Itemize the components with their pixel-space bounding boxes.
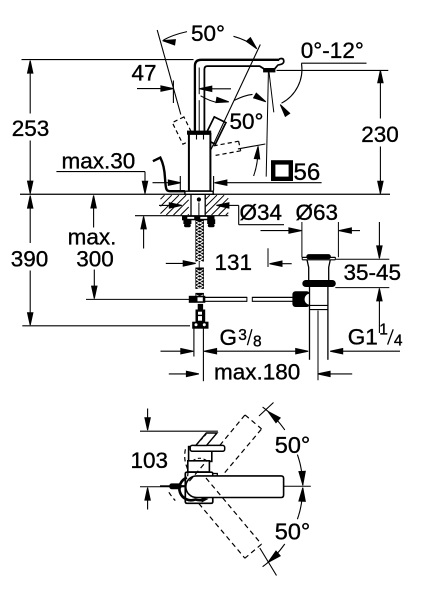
pop-up rod xyxy=(205,297,293,302)
dim 103 top xyxy=(145,409,150,431)
tv arc upper arrow top xyxy=(268,411,280,422)
handle lever dashed xyxy=(172,117,194,144)
label G1-1/4 xyxy=(348,321,403,349)
svg-text:4: 4 xyxy=(394,333,403,350)
tv paddle bar xyxy=(190,445,225,451)
spout tip xyxy=(275,59,284,69)
tv dashed curve left lower xyxy=(169,492,175,500)
deck hatching xyxy=(161,195,229,215)
label 50deg top xyxy=(191,21,225,46)
tv dashed spout upper xyxy=(189,415,261,481)
label max.30 xyxy=(62,149,136,174)
tv centerline left xyxy=(140,486,174,488)
supply pipe left xyxy=(193,328,195,356)
extension line spout top level xyxy=(22,59,194,61)
tv arc lower arrow bottom xyxy=(268,551,280,562)
dim 390 arrow up xyxy=(28,196,33,209)
tv swoosh xyxy=(179,478,207,502)
pull rod hook xyxy=(153,158,185,192)
mounting plate xyxy=(183,216,215,220)
drain cap xyxy=(302,255,335,260)
tv arc lower arrow top xyxy=(299,488,305,502)
dim 131 right xyxy=(270,261,292,266)
supply pipe right xyxy=(202,328,204,381)
label 50deg tv bottom xyxy=(275,518,311,544)
svg-text:230: 230 xyxy=(361,122,399,147)
label max.300 xyxy=(68,225,117,272)
o63 arrow right xyxy=(261,228,302,233)
tv body lower xyxy=(188,461,210,472)
svg-text:50°: 50° xyxy=(275,518,311,544)
svg-text:390: 390 xyxy=(11,247,49,272)
tv ref line top xyxy=(140,430,218,432)
tv dashed spout upper edge lower xyxy=(225,429,262,473)
svg-text:G1: G1 xyxy=(348,324,378,349)
handle lever xyxy=(204,117,226,144)
body cap xyxy=(188,131,211,134)
spout underside xyxy=(204,66,263,131)
dim 253 line xyxy=(29,61,31,193)
escutcheon ext left xyxy=(179,176,181,191)
deck bottom line xyxy=(135,215,228,217)
o34 leader box xyxy=(239,205,284,224)
label 50deg tv top xyxy=(275,432,311,458)
base plate xyxy=(185,191,213,194)
svg-text:Ø34: Ø34 xyxy=(240,200,283,225)
dim 35-45 top xyxy=(377,222,382,258)
svg-text:Ø63: Ø63 xyxy=(296,200,339,225)
label 253 xyxy=(12,116,50,141)
35-45 ref top xyxy=(335,258,389,260)
o34 arrow left xyxy=(216,203,238,208)
label 230 xyxy=(361,122,399,147)
tv base square xyxy=(185,472,213,503)
escutcheon arrow left xyxy=(214,180,321,185)
svg-text:max.180: max.180 xyxy=(214,359,300,384)
svg-text:G: G xyxy=(220,325,238,350)
dim 47 extension line xyxy=(172,81,174,104)
dim line escutcheon xyxy=(153,182,170,184)
dim 253 arrow up xyxy=(28,61,33,74)
open handle axis line xyxy=(238,144,265,149)
tv arc lower xyxy=(263,488,303,566)
max.30 arrow down xyxy=(142,181,147,194)
open handle dashed xyxy=(214,141,241,155)
dim 35-45 bottom xyxy=(377,288,382,333)
tv body upper xyxy=(189,447,212,462)
max.300 arrow up xyxy=(91,196,96,228)
svg-text:300: 300 xyxy=(76,247,114,272)
svg-text:8: 8 xyxy=(253,334,262,351)
label max.180 xyxy=(214,359,300,384)
tv lower ext line xyxy=(260,548,277,576)
aerator xyxy=(264,69,275,72)
dim max180 right xyxy=(318,371,353,376)
svg-text:50°: 50° xyxy=(230,109,264,134)
dim 390 arrow down xyxy=(28,313,33,326)
shank centerline xyxy=(197,198,200,216)
supply fitting xyxy=(196,310,205,322)
dim 47 arrow right xyxy=(161,86,174,91)
dim 47 left line xyxy=(137,88,162,90)
35-45 ref bottom xyxy=(335,287,389,289)
arc 50 mid xyxy=(254,146,260,176)
dim G3/8 xyxy=(161,349,297,354)
arc 50 top right xyxy=(234,36,257,49)
dim 230 line xyxy=(379,71,381,193)
svg-text:253: 253 xyxy=(12,116,50,141)
label 390 xyxy=(11,247,49,272)
label square56 xyxy=(273,159,320,186)
dim 390 line xyxy=(29,196,31,324)
dim 131 left xyxy=(166,261,196,266)
arc 0-12 xyxy=(280,63,302,116)
tv spout xyxy=(186,476,284,498)
max.300 leader xyxy=(93,270,95,288)
body xyxy=(189,134,211,191)
0-12 underline xyxy=(301,62,366,64)
dim 230 arrow down xyxy=(378,181,383,194)
svg-text:56: 56 xyxy=(294,159,321,186)
svg-text:103: 103 xyxy=(131,448,169,473)
escutcheon ext right xyxy=(213,176,215,191)
drain knob xyxy=(293,292,316,307)
dim G1-1/4 xyxy=(296,349,400,354)
label 131 xyxy=(215,250,253,275)
svg-text:max.30: max.30 xyxy=(62,149,136,174)
label 103 xyxy=(131,448,169,473)
tv arc upper xyxy=(263,407,303,485)
tv body inner dashed xyxy=(193,458,207,461)
escutcheon arrow right xyxy=(168,180,181,185)
tv dashed curve left xyxy=(185,449,188,476)
label 0-12deg xyxy=(301,38,364,63)
tv dashed spout lower xyxy=(199,478,262,558)
svg-text:47: 47 xyxy=(132,61,157,86)
handle axis line dashed-pos xyxy=(157,30,181,115)
tv base tab xyxy=(213,474,218,479)
svg-text:50°: 50° xyxy=(275,432,311,458)
tv centerline right xyxy=(284,485,311,487)
extension line pop-up rod left xyxy=(86,298,189,300)
extension line outlet level xyxy=(277,69,389,71)
max.300 arrow down xyxy=(92,286,97,299)
fitting nut xyxy=(193,322,208,328)
extension line supply end xyxy=(22,325,190,327)
threaded rod xyxy=(196,220,204,298)
rod gap centerline xyxy=(198,261,200,268)
svg-text:50°: 50° xyxy=(191,21,225,46)
deck top line xyxy=(20,193,390,195)
drain body xyxy=(310,287,328,360)
dim 131 ext xyxy=(267,248,269,267)
svg-text:131: 131 xyxy=(215,250,253,275)
drain neck xyxy=(307,260,330,281)
label 35-45 xyxy=(344,260,402,285)
dim 103 bottom xyxy=(145,488,150,510)
label o63 xyxy=(296,200,339,225)
stream line 0deg xyxy=(266,72,268,177)
tv knob stub xyxy=(160,484,185,489)
dim max180 left xyxy=(169,371,199,376)
label G3/8 xyxy=(220,325,262,351)
dim 47 arrow left xyxy=(199,86,231,91)
tv paddle top xyxy=(196,433,217,445)
drain flange xyxy=(303,281,336,287)
o63 ext right xyxy=(337,222,339,257)
drain coupling xyxy=(310,305,328,309)
spout centerline xyxy=(198,68,200,132)
drain centerline xyxy=(317,311,319,381)
label 47 xyxy=(132,61,157,86)
arc mid right xyxy=(234,93,266,102)
nut right xyxy=(208,220,215,227)
max.30 arrow up xyxy=(141,216,146,248)
stream line 12deg xyxy=(269,72,274,112)
max.30 underline leader xyxy=(56,172,145,182)
svg-text:3: 3 xyxy=(238,327,247,344)
tv arc upper arrow bottom xyxy=(299,471,305,485)
nut left xyxy=(184,220,191,227)
o63 arrow left xyxy=(339,228,360,233)
tee xyxy=(189,296,205,310)
o63 ext left xyxy=(301,222,303,257)
tv upper ext line xyxy=(259,403,274,417)
o34 arrow right xyxy=(169,203,182,208)
dim 230 arrow up xyxy=(378,70,383,83)
dim 253 arrow down xyxy=(28,181,33,194)
cartridge lines xyxy=(197,134,204,140)
svg-text:35-45: 35-45 xyxy=(344,260,402,285)
spout outer contour xyxy=(195,60,278,133)
handle axis line solid-pos xyxy=(211,45,260,150)
arc 50 top left xyxy=(163,32,187,45)
label o34 xyxy=(240,200,283,225)
arc mid left xyxy=(201,96,229,103)
dim line o34 left xyxy=(159,204,170,206)
svg-text:0°-12°: 0°-12° xyxy=(301,38,364,63)
shank xyxy=(191,194,205,215)
svg-text:1: 1 xyxy=(379,321,388,338)
label 50deg mid xyxy=(230,109,264,134)
